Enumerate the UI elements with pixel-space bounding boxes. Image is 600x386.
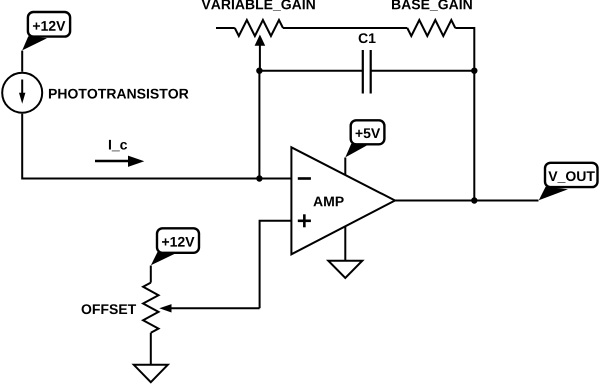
wire C1 left xyxy=(259,70,362,72)
ground under op-amp xyxy=(328,261,362,278)
net flag +12V (V2 offset) xyxy=(151,228,199,265)
wire +5V pin xyxy=(344,158,346,176)
net flag +12V (V1) xyxy=(22,12,70,50)
potentiometer OFFSET zigzag xyxy=(143,283,158,333)
wire flag to current source xyxy=(21,51,23,72)
ground under OFFSET pot xyxy=(134,365,168,382)
wire op-amp ground pin xyxy=(344,226,346,260)
junction dot C1/BASE_GAIN xyxy=(471,68,477,74)
potentiometer VARIABLE_GAIN wiper arrow xyxy=(255,35,266,71)
current source I1 arrow xyxy=(19,80,25,104)
label BASE_GAIN xyxy=(392,0,472,11)
op-amp plus symbol xyxy=(298,214,311,227)
junction dot output node xyxy=(471,197,477,203)
label OFFSET xyxy=(82,304,137,314)
wire +12V flag to OFFSET pot xyxy=(150,266,152,283)
label PHOTOTRANSISTOR xyxy=(49,89,189,99)
wire current source to op-amp inverting input xyxy=(22,114,291,179)
net flag V_OUT xyxy=(539,163,598,201)
current source I1 circle xyxy=(2,73,42,113)
op-amp U1 triangle xyxy=(291,147,395,254)
wire top-left stub xyxy=(216,27,235,29)
junction dot wiper/C1 xyxy=(256,68,262,74)
wire OFFSET pot to ground xyxy=(150,333,152,365)
wire op-amp output to V_OUT xyxy=(395,200,539,202)
label C1 xyxy=(359,33,376,43)
net flag +5V xyxy=(345,120,384,157)
potentiometer VARIABLE_GAIN zigzag xyxy=(235,20,283,36)
junction dot inverting input xyxy=(256,175,262,181)
label VARIABLE_GAIN xyxy=(202,0,315,11)
wire between VARIABLE_GAIN and BASE_GAIN xyxy=(283,27,407,29)
potentiometer OFFSET wiper arrow xyxy=(159,304,259,312)
resistor BASE_GAIN zigzag xyxy=(407,20,455,36)
wire C1 right xyxy=(371,70,475,72)
wire wiper up to non-inverting input xyxy=(260,221,292,308)
wire wiper node down to inverting input xyxy=(258,71,260,179)
wire BASE_GAIN right, down to output node xyxy=(455,28,474,201)
capacitor C1 plates xyxy=(363,50,371,94)
label I_c xyxy=(109,140,127,151)
current arrow I_c xyxy=(95,156,144,167)
op-amp minus symbol xyxy=(298,177,311,180)
label AMP xyxy=(313,197,343,207)
